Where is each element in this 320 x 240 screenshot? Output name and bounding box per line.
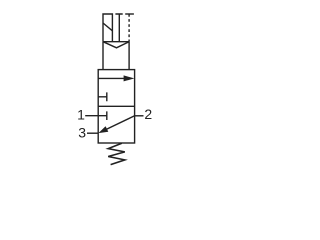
svg-text:1: 1	[77, 107, 85, 123]
svg-text:2: 2	[144, 106, 152, 122]
svg-text:3: 3	[78, 125, 86, 141]
